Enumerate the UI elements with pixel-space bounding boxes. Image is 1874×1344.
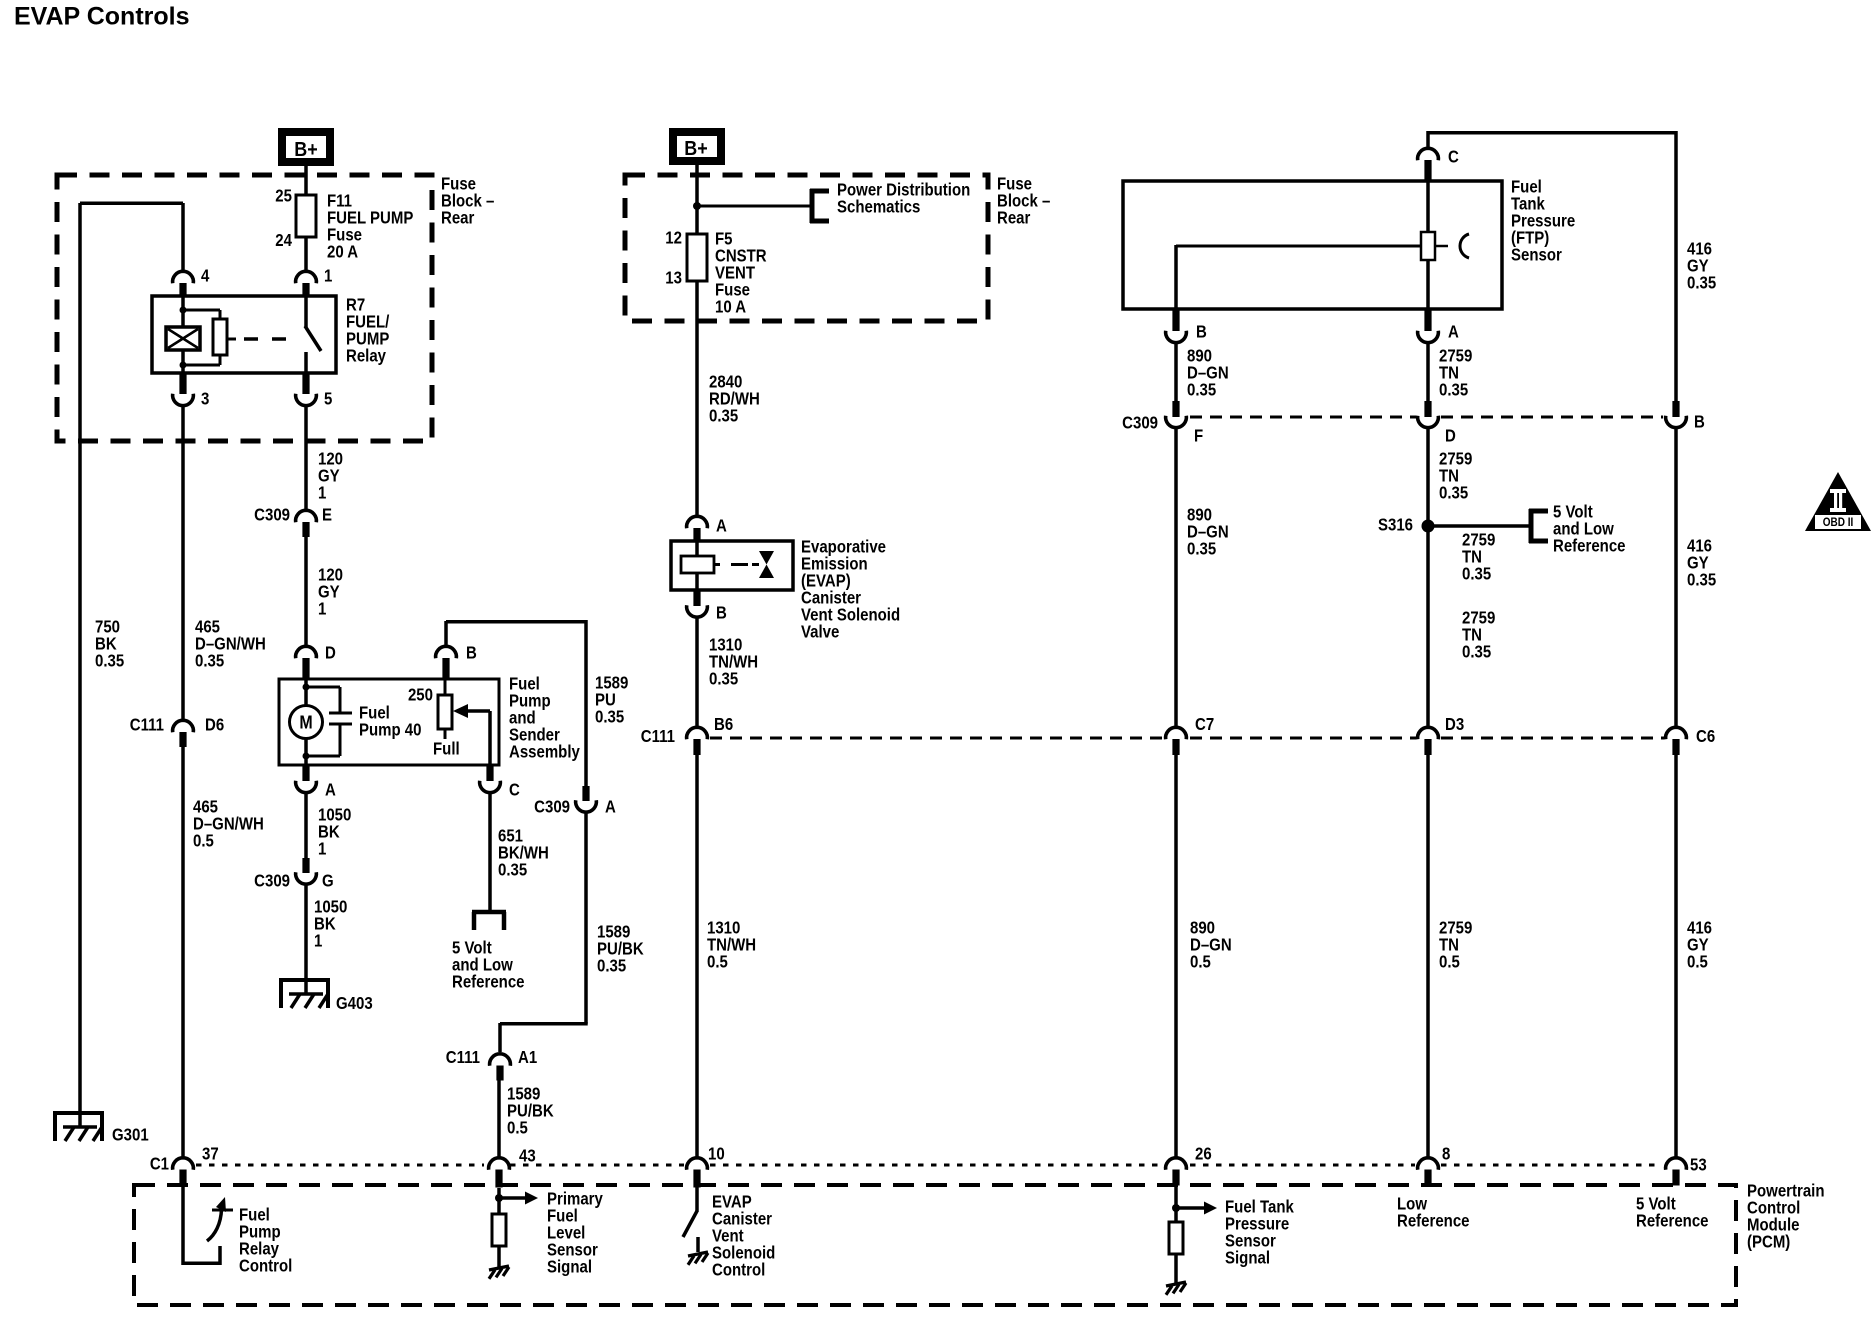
svg-text:43: 43 (519, 1147, 536, 1166)
svg-text:C7: C7 (1195, 715, 1214, 734)
connector pin 1 (relay R7) (296, 267, 333, 297)
label Full (433, 740, 460, 759)
svg-text:A: A (1448, 323, 1459, 342)
svg-text:0.35: 0.35 (1187, 381, 1216, 400)
svg-text:Relay: Relay (346, 347, 386, 366)
label Fuse Block - Rear (middle) (997, 175, 1050, 228)
fuel pump motor M (290, 679, 323, 765)
label 465 D-GN/WH 0.35 (195, 618, 266, 671)
svg-text:Sensor: Sensor (1511, 246, 1562, 265)
wire relay pin 3 to C111 D6 (181, 406, 185, 719)
svg-text:10 A: 10 A (715, 298, 746, 317)
wire branch to ground G301 (750 BK) (80, 203, 183, 1113)
label 890 D-GN 0.5 (1190, 919, 1232, 972)
svg-text:0.35: 0.35 (1439, 381, 1468, 400)
svg-text:0.35: 0.35 (1462, 643, 1491, 662)
label 2759 TN 0.35 (pin A) (1439, 347, 1472, 400)
svg-text:0.35: 0.35 (1462, 565, 1491, 584)
EVAP valve solenoid coil (681, 541, 714, 590)
pin 25 label (fuse F11 top) (275, 187, 292, 206)
svg-text:0.5: 0.5 (193, 832, 214, 851)
svg-text:Rear: Rear (997, 209, 1031, 228)
svg-text:A: A (325, 781, 336, 800)
label 750 BK 0.35 (95, 618, 124, 671)
fuel pump and sender assembly box (279, 679, 499, 765)
ground (PCM pin 43 input) (489, 1266, 509, 1279)
svg-text:S316: S316 (1378, 516, 1413, 535)
svg-text:Reference: Reference (1397, 1212, 1470, 1231)
connector PCM pin 43 (489, 1147, 536, 1188)
svg-text:0.35: 0.35 (195, 652, 224, 671)
svg-text:5: 5 (324, 390, 332, 409)
svg-text:C309: C309 (534, 798, 570, 817)
svg-text:E: E (322, 506, 332, 525)
label 5 Volt Reference (1636, 1195, 1709, 1231)
connector C309 E (254, 506, 332, 537)
wire pin C to 5 volt reference (488, 793, 492, 914)
ground G403 (279, 980, 373, 1013)
label 651 BK/WH 0.35 (498, 827, 549, 880)
off-page bracket to power distribution schematics (810, 189, 829, 223)
label 250 (sender resistance) (408, 686, 433, 705)
label 1589 PU/BK 0.35 (597, 923, 644, 976)
svg-text:10: 10 (708, 1145, 725, 1164)
svg-text:8: 8 (1442, 1145, 1450, 1164)
svg-text:Reference: Reference (1553, 537, 1626, 556)
svg-text:Control: Control (712, 1261, 765, 1280)
wire C309 B to C111 C6 (1674, 428, 1678, 727)
svg-text:C309: C309 (254, 872, 290, 891)
pin 13 label (fuse F5 bottom) (665, 269, 682, 288)
connector pin B (EVAP valve) (687, 590, 727, 623)
wire FTP pin B to C309 F (1174, 343, 1178, 401)
svg-text:26: 26 (1195, 1145, 1212, 1164)
wire S316 to 5 volt reference bracket (1428, 524, 1530, 528)
svg-text:A: A (605, 798, 616, 817)
svg-text:250: 250 (408, 686, 433, 705)
relay R7 box (152, 296, 336, 373)
label 1310 TN/WH 0.35 (709, 636, 758, 689)
svg-text:0.5: 0.5 (1687, 953, 1708, 972)
svg-text:C309: C309 (1122, 414, 1158, 433)
wire FTP pin A to C309 D (1426, 343, 1430, 401)
wire C309 E to fuel pump pin D (304, 537, 308, 646)
svg-text:B: B (466, 644, 477, 663)
wire relay pin 5 to C309 E (304, 406, 308, 510)
wire pin B loop to C309 A (446, 620, 586, 786)
connector C111 D6 (130, 716, 224, 747)
wire C111 D6 to PCM pin 37 (181, 747, 185, 1157)
svg-text:20 A: 20 A (327, 243, 358, 262)
label C1 (PCM connector row) (150, 1155, 169, 1174)
title EVAP Controls (14, 3, 190, 31)
connector pin 3 (relay R7) (173, 373, 210, 409)
label 5 Volt and Low Reference (pump) (452, 939, 525, 992)
svg-text:(PCM): (PCM) (1747, 1233, 1790, 1252)
svg-text:Reference: Reference (452, 973, 525, 992)
wire fuse F5 to EVAP valve pin A (695, 281, 699, 515)
connector C111 B6 (687, 715, 734, 755)
label F5 CNSTR VENT Fuse 10 A (715, 230, 767, 317)
connector PCM pin 10 (687, 1145, 725, 1188)
svg-text:Signal: Signal (1225, 1249, 1270, 1268)
fuel pump capacitor branch (303, 684, 353, 760)
label 120 GY 1 (lower) (318, 566, 343, 619)
label 2840 RD/WH 0.35 (709, 373, 760, 426)
connector row C1 dotted line (196, 1164, 1662, 1167)
fuel level sender resistor (438, 679, 452, 739)
EVAP canister vent solenoid valve box (671, 541, 793, 590)
svg-text:F: F (1194, 427, 1203, 446)
wire fuse F11 to relay pin 1 (304, 237, 308, 270)
power symbol B+ (left feed) (278, 128, 334, 166)
svg-text:0.35: 0.35 (709, 670, 738, 689)
connector row C309 dashed line (1190, 416, 1663, 419)
label 1050 BK 1 (upper) (318, 806, 351, 859)
fuse F11 (296, 195, 316, 237)
connector PCM pin 53 (1666, 1156, 1707, 1186)
svg-text:Rear: Rear (441, 209, 475, 228)
wire C309 F to C111 C7 (1174, 428, 1178, 727)
label 465 D-GN/WH 0.5 (193, 798, 264, 851)
label 2759 TN 0.35 (below C309 D) (1439, 450, 1472, 503)
connector pin A (EVAP valve) (687, 516, 728, 542)
EVAP canister vent solenoid control driver (PCM internal) (683, 1187, 698, 1252)
connector PCM pin 26 (1166, 1145, 1212, 1186)
svg-text:C111: C111 (130, 716, 164, 735)
wire C111 B6 to PCM pin 10 (695, 755, 699, 1157)
EVAP valve actuator link and valve symbol (714, 551, 774, 578)
svg-text:B6: B6 (714, 715, 733, 734)
label 2759 TN 0.35 (above C111 D3) (1462, 609, 1495, 662)
svg-text:A1: A1 (518, 1048, 537, 1067)
svg-text:0.5: 0.5 (1190, 953, 1211, 972)
relay R7 coil-resistor loop (180, 307, 228, 369)
fuel tank pressure sensor box (1123, 181, 1502, 309)
splice S316 (1378, 516, 1435, 535)
connector PCM pin 8 (1418, 1145, 1451, 1186)
label Fuel Tank Pressure (FTP) Sensor (1511, 178, 1575, 265)
svg-text:0.35: 0.35 (1439, 484, 1468, 503)
label C309 (connector row) (1122, 414, 1158, 433)
svg-text:G403: G403 (336, 994, 373, 1013)
svg-text:C111: C111 (446, 1048, 480, 1067)
label R7 FUEL/PUMP Relay (346, 296, 390, 366)
svg-text:C309: C309 (254, 506, 290, 525)
label 890 D-GN 0.35 (upper) (1187, 347, 1229, 400)
label Fuse Block - Rear (left) (441, 175, 494, 228)
svg-text:B+: B+ (294, 138, 317, 161)
wire C111 D3 to PCM pin 8 (1426, 755, 1430, 1157)
svg-text:OBD II: OBD II (1823, 516, 1854, 529)
svg-text:B+: B+ (684, 137, 707, 160)
wire junction to power distribution bracket (697, 205, 811, 208)
svg-text:C111: C111 (641, 727, 675, 746)
svg-text:D: D (325, 644, 336, 663)
label 5 Volt and Low Reference (S316) (1553, 503, 1626, 556)
svg-text:C6: C6 (1696, 727, 1715, 746)
connector C111 C6 (1666, 727, 1716, 755)
fuse block rear (left) dashed box (57, 175, 432, 441)
label Fuel Tank Pressure Sensor Signal (1225, 1198, 1294, 1268)
ground G301 (53, 1113, 149, 1145)
svg-text:0.5: 0.5 (707, 953, 728, 972)
svg-text:G: G (322, 872, 334, 891)
label F11 FUEL PUMP Fuse 20 A (327, 192, 414, 262)
sender wiper arrow (453, 704, 490, 765)
primary fuel level sensor signal input (PCM internal) (492, 1188, 538, 1267)
svg-text:0.35: 0.35 (498, 861, 527, 880)
svg-text:4: 4 (201, 267, 209, 286)
label Fuel Pump 40 (359, 704, 422, 740)
svg-text:0.5: 0.5 (507, 1119, 528, 1138)
fuse F5 (687, 234, 707, 281)
FTP pressure transducer symbol (1421, 232, 1469, 260)
svg-text:25: 25 (275, 187, 292, 206)
connector C309 A (534, 786, 616, 817)
svg-text:C1: C1 (150, 1155, 169, 1174)
FTP sensor internal wiring (1176, 181, 1428, 309)
label Fuel Pump and Sender Assembly (509, 675, 580, 762)
label EVAP Canister Vent Solenoid Control (712, 1193, 775, 1280)
svg-text:D3: D3 (1445, 715, 1464, 734)
svg-text:Control: Control (239, 1257, 292, 1276)
svg-text:24: 24 (275, 231, 292, 250)
svg-text:B: B (1694, 413, 1705, 432)
label 120 GY 1 (upper) (318, 450, 343, 503)
svg-text:C: C (1448, 148, 1459, 167)
wire C309 G to ground G403 (304, 885, 308, 983)
svg-text:0.35: 0.35 (709, 407, 738, 426)
svg-text:D6: D6 (205, 716, 224, 735)
label 416 GY 0.5 (1687, 919, 1712, 972)
label 1310 TN/WH 0.5 (707, 919, 756, 972)
ground (PCM pin 10 driver) (688, 1252, 708, 1265)
svg-text:1: 1 (318, 840, 326, 859)
connector pin 4 (relay R7) (173, 267, 210, 297)
svg-text:A: A (716, 517, 727, 536)
svg-text:M: M (299, 711, 312, 732)
connector C111 A1 (446, 1048, 537, 1080)
connector C309 G (254, 858, 334, 891)
wire C111 C7 to PCM pin 26 (1174, 755, 1178, 1157)
label C111 (connector row) (641, 727, 675, 746)
label Power Distribution Schematics (837, 181, 970, 217)
connector pin A (fuel pump) (296, 765, 337, 800)
pin 24 label (fuse F11 bottom) (275, 231, 292, 250)
svg-text:13: 13 (665, 269, 682, 288)
svg-text:0.35: 0.35 (595, 708, 624, 727)
svg-text:Assembly: Assembly (509, 743, 580, 762)
svg-text:C: C (509, 781, 520, 800)
label Low Reference (1397, 1195, 1470, 1231)
connector C111 D3 (1418, 715, 1465, 755)
svg-text:1: 1 (318, 484, 326, 503)
connector pin A (FTP sensor) (1418, 309, 1460, 343)
connector C111 C7 (1166, 715, 1215, 755)
svg-text:Full: Full (433, 740, 460, 759)
connector C309 F (1166, 401, 1204, 446)
svg-text:G301: G301 (112, 1126, 149, 1145)
relay R7 coil (166, 296, 200, 373)
svg-text:Signal: Signal (547, 1258, 592, 1277)
label 2759 TN 0.35 (below S316) (1462, 531, 1495, 584)
svg-text:3: 3 (201, 390, 209, 409)
connector row C111 dashed line (710, 737, 1664, 740)
svg-text:53: 53 (1690, 1156, 1707, 1175)
connector pin B (fuel pump) (436, 644, 477, 679)
off-page bracket to 5 volt and low reference (pump) (472, 912, 506, 930)
wire FTP pin C feed loop (416 GY) (1428, 131, 1676, 401)
svg-text:0.35: 0.35 (1687, 571, 1716, 590)
svg-text:1: 1 (314, 932, 322, 951)
wire C309 A to C111 A1 (500, 813, 588, 1053)
connector C309 B (1666, 401, 1705, 432)
label Evaporative Emission (EVAP) Canister Vent Solenoid Valve (801, 538, 900, 642)
label 1050 BK 1 (lower) (314, 898, 347, 951)
wire B+ to fuse F5 (693, 163, 701, 235)
wire pin A to C309 G (304, 793, 308, 859)
connector pin D (fuel pump) (296, 644, 336, 679)
pin 12 label (fuse F5 top) (665, 229, 682, 248)
connector C309 D (1418, 401, 1456, 446)
svg-text:12: 12 (665, 229, 682, 248)
wire to relay pin 4 (181, 203, 185, 270)
relay R7 switch contact (305, 296, 321, 373)
svg-text:0.35: 0.35 (1687, 274, 1716, 293)
svg-text:1: 1 (324, 267, 332, 286)
svg-text:0.5: 0.5 (1439, 953, 1460, 972)
svg-text:B: B (716, 604, 727, 623)
label Primary Fuel Level Sensor Signal (547, 1190, 603, 1277)
svg-text:B: B (1196, 323, 1207, 342)
label 2759 TN 0.5 (1439, 919, 1472, 972)
svg-text:D: D (1445, 427, 1456, 446)
svg-text:37: 37 (202, 1145, 219, 1164)
label 890 D-GN 0.35 (lower) (1187, 506, 1229, 559)
off-page bracket to 5 volt and low reference (S316) (1529, 509, 1548, 543)
svg-text:Reference: Reference (1636, 1212, 1709, 1231)
svg-text:EVAP Controls: EVAP Controls (14, 3, 190, 31)
wire C111 A1 to PCM pin 43 (497, 1080, 501, 1157)
svg-text:Pump 40: Pump 40 (359, 721, 422, 740)
label 1589 PU/BK 0.5 (507, 1085, 554, 1138)
power symbol B+ (middle feed) (669, 128, 725, 165)
connector pin C (FTP sensor) (1418, 148, 1460, 180)
connector PCM pin 37 (173, 1145, 219, 1187)
ground (PCM pin 26 input) (1166, 1282, 1186, 1295)
wire EVAP valve to C111 B6 (695, 618, 699, 728)
svg-text:0.35: 0.35 (1187, 540, 1216, 559)
svg-text:0.35: 0.35 (597, 957, 626, 976)
OBD II symbol (1805, 472, 1871, 531)
label 416 GY 0.35 (mid right) (1687, 537, 1716, 590)
connector pin C (fuel pump) (480, 765, 521, 800)
fuel tank pressure sensor signal input (PCM internal) (1169, 1185, 1217, 1283)
relay R7 dashed actuator link (227, 338, 286, 341)
svg-text:Valve: Valve (801, 623, 839, 642)
wire C309 D to C111 D3 via S316 (1426, 428, 1430, 727)
svg-text:0.35: 0.35 (95, 652, 124, 671)
connector pin 5 (relay R7) (296, 373, 333, 409)
svg-text:Schematics: Schematics (837, 198, 920, 217)
svg-text:1: 1 (318, 600, 326, 619)
wire B+ to fuse F11 (304, 166, 308, 196)
fuse block rear (middle) dashed box (625, 175, 988, 321)
label Powertrain Control Module (PCM) (1747, 1182, 1824, 1252)
powertrain control module dashed box (134, 1185, 1736, 1305)
connector pin B (FTP sensor) (1166, 309, 1207, 343)
label 416 GY 0.35 (upper right) (1687, 240, 1716, 293)
label Fuel Pump Relay Control (239, 1206, 292, 1276)
label 1589 PU 0.35 (595, 674, 628, 727)
wire C111 C6 to PCM pin 53 (1674, 755, 1678, 1157)
fuel pump relay control driver (PCM internal) (183, 1185, 233, 1265)
